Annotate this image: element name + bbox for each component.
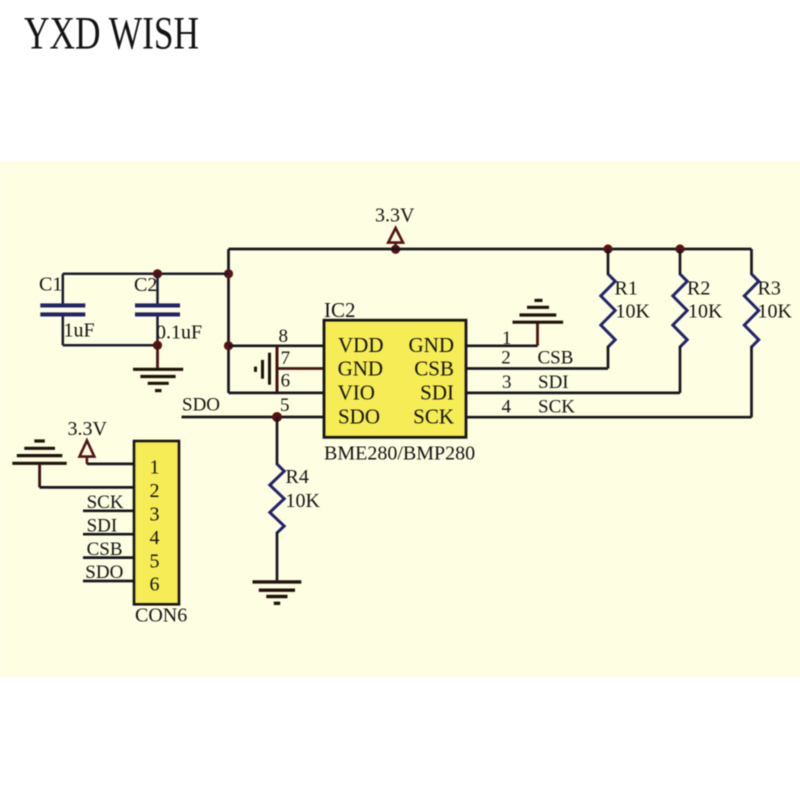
svg-text:VIO: VIO: [338, 381, 375, 405]
svg-text:BME280/BMP280: BME280/BMP280: [324, 443, 475, 465]
svg-text:2: 2: [501, 348, 511, 369]
svg-text:C2: C2: [134, 274, 157, 296]
svg-text:SDO: SDO: [182, 395, 220, 416]
svg-text:6: 6: [281, 371, 291, 392]
svg-text:R2: R2: [687, 278, 710, 300]
wire IC pin 8 (VDD): [229, 344, 325, 347]
svg-text:IC2: IC2: [324, 298, 356, 322]
power symbol 3.3V at CON6: [80, 441, 95, 464]
ground (rotated) at IC pin 7: [256, 346, 278, 393]
svg-text:SDI: SDI: [420, 381, 454, 405]
svg-text:CON6: CON6: [135, 605, 187, 627]
wire IC pin 7 (GND) stem: [277, 367, 324, 370]
svg-text:SCK: SCK: [538, 396, 575, 417]
svg-text:10K: 10K: [286, 490, 321, 512]
svg-text:6: 6: [150, 574, 160, 596]
svg-text:R4: R4: [286, 466, 309, 488]
svg-text:3.3V: 3.3V: [68, 418, 108, 440]
junction node C2 top: [153, 269, 162, 278]
wire IC pin 3 (SDI) to R2: [466, 392, 680, 395]
ground below R4: [253, 582, 302, 603]
wire IC pin 4 (SCK) to R3: [466, 416, 752, 419]
svg-text:10K: 10K: [688, 301, 723, 323]
op-amp/IC U1 body BME280: [324, 320, 466, 437]
svg-text:C1: C1: [39, 274, 62, 296]
svg-text:3: 3: [150, 504, 160, 526]
wire IC pin 1 (GND right): [466, 344, 538, 347]
svg-text:GND: GND: [338, 356, 384, 380]
svg-text:2: 2: [150, 480, 160, 502]
svg-text:SDI: SDI: [538, 372, 569, 393]
yellow schematic background band: [0, 161, 800, 677]
wire IC pin 5 (SDO): [182, 416, 325, 419]
wire capacitor top rail: [63, 273, 229, 276]
wire CON6 pin 6: [83, 580, 134, 583]
svg-text:CSB: CSB: [538, 348, 574, 369]
svg-text:1: 1: [150, 457, 160, 479]
svg-text:1: 1: [502, 328, 512, 349]
ground (inverted) at CON6 pin 2: [12, 441, 66, 487]
capacitor C1: [40, 274, 85, 345]
wire capacitor bottom rail: [63, 344, 158, 347]
svg-text:3: 3: [502, 372, 512, 393]
svg-text:8: 8: [279, 326, 289, 347]
resistor R4: [270, 417, 284, 580]
wire CON6 pin 2: [40, 486, 134, 489]
wire CON6 pin 3: [83, 509, 134, 512]
resistor R1: [601, 249, 615, 369]
wire IC pin 6 (VIO): [229, 392, 325, 395]
wire vertical 3.3V feed to IC pins: [227, 249, 230, 393]
wire IC pin 2 (CSB) to R1: [466, 367, 608, 370]
junction node rail/R2: [675, 244, 684, 253]
svg-text:VDD: VDD: [338, 333, 384, 357]
junction node C2 bottom / ground: [153, 341, 162, 350]
ground below C2: [133, 345, 183, 390]
svg-text:3.3V: 3.3V: [375, 205, 415, 227]
resistor R2: [673, 249, 687, 393]
connector CON6 body: [134, 441, 179, 604]
svg-text:5: 5: [280, 395, 290, 416]
wire CON6 pin 5: [83, 556, 134, 559]
svg-text:R1: R1: [615, 278, 638, 300]
junction node feed/cap-top: [224, 269, 233, 278]
power symbol 3.3V top: [388, 228, 403, 249]
capacitor C2: [135, 274, 180, 345]
junction node SDO / R4: [272, 412, 282, 422]
wire CON6 pin 1: [87, 463, 134, 466]
resistor R3: [744, 249, 758, 417]
svg-text:7: 7: [281, 348, 291, 369]
svg-text:0.1uF: 0.1uF: [156, 322, 202, 344]
junction dot at 3.3V rail tap: [391, 245, 400, 254]
svg-text:R3: R3: [758, 278, 781, 300]
svg-text:10K: 10K: [758, 301, 793, 323]
wire CON6 pin 4: [83, 533, 134, 536]
svg-text:4: 4: [502, 396, 512, 417]
svg-text:SDO: SDO: [338, 404, 380, 428]
svg-text:1uF: 1uF: [64, 320, 95, 342]
svg-text:GND: GND: [409, 333, 455, 357]
svg-text:5: 5: [150, 550, 160, 572]
wire top 3.3V rail: [229, 248, 752, 251]
junction node feed/pin8: [224, 341, 233, 350]
svg-text:YXD WISH: YXD WISH: [24, 7, 199, 59]
junction node rail/R1: [603, 244, 612, 253]
svg-text:SCK: SCK: [413, 404, 454, 428]
svg-text:CSB: CSB: [414, 356, 454, 380]
ground (inverted) at IC pin 1: [513, 300, 564, 345]
svg-text:10K: 10K: [616, 301, 651, 323]
svg-text:4: 4: [150, 527, 160, 549]
